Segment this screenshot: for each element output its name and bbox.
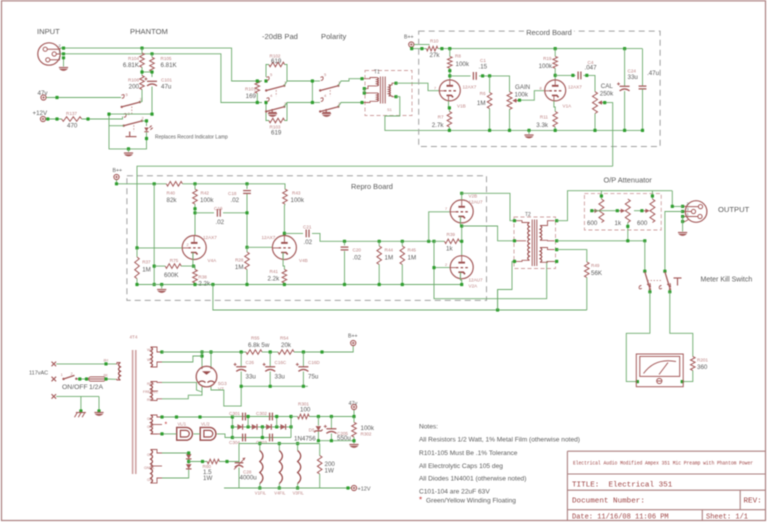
wire wiper bus 2 [634, 210, 644, 212]
junction R6 top [488, 74, 491, 77]
junction rail R7 [448, 129, 451, 132]
resistor R45 1M [400, 246, 405, 265]
wire bridge to R301 [291, 416, 298, 418]
svg-text:.047: .047 [585, 64, 598, 71]
wire R54 to B++ [294, 346, 353, 352]
svg-text:Meter Kill Switch: Meter Kill Switch [701, 277, 753, 284]
svg-text:Notes:: Notes: [419, 424, 438, 431]
wire T2 to attenuator rail [557, 191, 673, 221]
junction pin2 feed [671, 205, 674, 208]
transformer T2 box [514, 217, 556, 269]
junction R137 left [55, 117, 58, 120]
wire switch pivot left [109, 125, 124, 127]
junction chassis [79, 409, 82, 412]
junction rail R37 [135, 283, 138, 286]
switch S103B polarity [319, 98, 339, 113]
title block frame [567, 451, 765, 520]
wire V2A grid feedback from T2 secondary [434, 261, 557, 298]
svg-text:1M: 1M [142, 267, 151, 274]
junction T2 pin3 [513, 260, 516, 263]
junction T2 return [496, 308, 499, 311]
switch S1 ON/OFF [62, 375, 77, 380]
svg-text:+12V: +12V [358, 487, 371, 493]
svg-text:5G3: 5G3 [218, 381, 227, 386]
junction pin2 [62, 47, 65, 50]
svg-text:All Diodes 1N4001 (otherwise n: All Diodes 1N4001 (otherwise noted) [419, 476, 526, 483]
resistor R39 1k [445, 239, 460, 244]
junction 12V [346, 486, 349, 489]
svg-text:.02: .02 [231, 197, 240, 204]
svg-text:100k: 100k [539, 63, 553, 70]
AC pin 1 [52, 362, 57, 367]
svg-text:1k: 1k [446, 246, 453, 253]
terminal B++ supply [351, 340, 356, 345]
svg-text:7: 7 [445, 207, 447, 211]
capacitor C20 .02 [341, 247, 349, 250]
switch S201A meter kill [639, 272, 662, 291]
junction LED bottom [145, 137, 148, 140]
wire R200 bottom [319, 474, 321, 488]
junction R37 top [135, 246, 138, 249]
svg-text:47u: 47u [161, 84, 172, 91]
svg-text:619: 619 [271, 58, 282, 65]
svg-text:1W: 1W [203, 475, 212, 482]
diode D304 [280, 424, 285, 430]
svg-text:All Resistors 1/2 Watt, 1% Met: All Resistors 1/2 Watt, 1% Metal Film (o… [419, 437, 580, 444]
junction R101 top [256, 79, 259, 82]
svg-text:T1: T1 [374, 70, 380, 76]
polarized capacitor C24 33u [617, 82, 630, 91]
svg-text:V2B: V2B [469, 194, 478, 199]
junction V2A grid [432, 266, 435, 269]
wire CAL signal to V4A grid [137, 166, 613, 248]
wire zener ground rail [318, 440, 354, 442]
junction R104 top [140, 47, 143, 50]
ground at input XLR [59, 68, 68, 71]
junction R45 top [401, 240, 404, 243]
resistor R302 100k [352, 422, 357, 437]
junction V1FIL bottom [258, 486, 261, 489]
wire R44 top stub [378, 241, 380, 246]
svg-text:R101-105 Must Be .1% Tolerance: R101-105 Must Be .1% Tolerance [419, 450, 518, 457]
junction R42 bottom [193, 207, 196, 210]
wire ground to T2 primary return [213, 261, 514, 310]
svg-text:12AX7: 12AX7 [262, 235, 276, 240]
svg-text:V1A: V1A [563, 104, 573, 109]
svg-text:R201: R201 [697, 358, 708, 363]
wire R201 to meter right [682, 371, 693, 382]
svg-text:R105: R105 [161, 56, 172, 61]
svg-text:2: 2 [187, 243, 189, 247]
junction T2 pin5 [555, 239, 558, 242]
svg-text:V2A: V2A [469, 284, 479, 289]
junction V2B cathode [460, 224, 463, 227]
junction rail R45 [401, 283, 404, 286]
wire long ground return [213, 309, 587, 311]
svg-text:R75: R75 [170, 258, 179, 263]
svg-text:R7: R7 [438, 115, 444, 120]
wire W1 bottom to plate [162, 356, 202, 362]
capacitor C303 [270, 434, 273, 442]
svg-text:470: 470 [67, 123, 78, 130]
wire AC ground [56, 395, 99, 397]
junction V4FIL bottom [278, 486, 281, 489]
junction bridge left mid [231, 425, 234, 428]
svg-text:+12V: +12V [33, 110, 48, 117]
svg-text:V4A: V4A [208, 258, 218, 263]
junction rail V2A cathode [460, 283, 463, 286]
wire C28 top lead [238, 462, 240, 463]
wire repro ground rail [137, 284, 462, 286]
triode V2A 12AU7 [450, 256, 473, 279]
wire R101 bottom [256, 93, 258, 102]
pilot lamp VL/2 [200, 427, 216, 440]
wire W3 bottom to lamps [162, 433, 177, 435]
wire V1FIL bottom [259, 484, 261, 489]
junction T2 pin6 [555, 248, 558, 251]
junction C16C top [269, 350, 272, 353]
wire C1 to GAIN pot [479, 76, 510, 92]
svg-text:GN*: GN* [147, 425, 154, 429]
svg-text:ON/OFF: ON/OFF [62, 384, 88, 391]
resistor 200 1W [317, 456, 322, 475]
svg-text:12AU7: 12AU7 [469, 278, 483, 283]
wire pot R51 bottom to meter kill [627, 223, 629, 241]
wire +12V to R137 [46, 118, 62, 120]
wire C26 top lead [240, 352, 242, 367]
svg-text:R54: R54 [280, 336, 289, 341]
ground earth [94, 413, 103, 416]
junction C16C bottom [269, 385, 272, 388]
junction C101 bottom [150, 113, 153, 116]
junction rail R11 [554, 129, 557, 132]
switch toggle bar polarity [323, 109, 331, 113]
resistor R301 100 [298, 414, 310, 419]
svg-text:C101: C101 [161, 78, 172, 83]
polarized capacitor C26 33u [234, 363, 247, 372]
resistor R8 100k [448, 56, 453, 68]
capacitor C1 .15 [473, 72, 476, 80]
svg-text:GN: GN [147, 478, 153, 482]
record board dashed box [419, 31, 660, 146]
wire repro B+ rail [182, 184, 285, 189]
wire pad out cold [284, 103, 312, 107]
junction lamp2 top [198, 415, 201, 418]
junction T1 pin2 [363, 87, 366, 90]
wire bridge cap row top [232, 416, 291, 418]
wire C205 bottom lead [330, 434, 332, 441]
wire R7 bottom [448, 127, 450, 130]
junction switch1 top [643, 270, 646, 273]
svg-text:100k: 100k [291, 197, 305, 204]
svg-text:D5: D5 [309, 428, 315, 433]
svg-text:3: 3 [687, 207, 689, 211]
meter M1 [636, 354, 683, 387]
junction bridge out [289, 425, 292, 428]
junction rail [320, 350, 323, 353]
wire V7 cathode out [211, 386, 241, 406]
wire V2B plate to T2 [462, 193, 514, 220]
junction rail CAL [593, 129, 596, 132]
wire D5 bottom lead [317, 432, 319, 441]
svg-text:C16C: C16C [275, 360, 287, 365]
junction cap row 1 [247, 415, 250, 418]
junction diode mid [187, 460, 190, 463]
wire pot R52 top [651, 191, 653, 199]
junction B++ repro base [115, 182, 118, 185]
AC pin 3 [52, 394, 57, 399]
O/P attenuator dashed box [584, 194, 661, 230]
junction plate2 [209, 350, 212, 353]
wire R11 bottom [554, 127, 556, 130]
transformer T1 primary winding 1 [362, 78, 379, 89]
wire V2A cathode to ground rail [460, 272, 461, 284]
junction meter kill feed [643, 239, 646, 242]
pilot lamp VL/1 [177, 427, 193, 440]
junction R8 top [448, 47, 451, 50]
wire R19 top stub [554, 49, 556, 57]
resistor R60 1.5 [207, 459, 219, 464]
wire plate to C4 [555, 74, 575, 76]
wire C18 top stub [246, 184, 248, 189]
svg-text:B++: B++ [113, 168, 123, 174]
junction W3 bottom [160, 432, 163, 435]
diode D302 [252, 424, 257, 430]
switch toggle bar [126, 132, 137, 137]
svg-text:75u: 75u [308, 374, 319, 381]
svg-text:12AX7: 12AX7 [568, 84, 582, 89]
wire bias drop to ground rail [153, 184, 155, 285]
transformer T1 primary winding 2 [362, 93, 379, 103]
svg-text:R19: R19 [543, 56, 552, 61]
wire cap riser 2 [276, 417, 278, 427]
wire lamps to bridge bottom [217, 434, 233, 438]
junction V2B plate [460, 192, 463, 195]
svg-text:250k: 250k [600, 91, 614, 98]
capacitor C302 [270, 413, 273, 421]
transformer T4 core [133, 350, 136, 474]
junction bridge TL [231, 415, 234, 418]
svg-text:2: 2 [687, 202, 689, 206]
junction R44 top [378, 240, 381, 243]
wire attenuator to out pin2 [672, 191, 682, 207]
transformer T2 secondary winding 2 [540, 248, 555, 263]
wire cap riser 1 [247, 417, 249, 427]
wire C20 top stub [344, 241, 346, 245]
svg-text:1N4756: 1N4756 [294, 436, 316, 443]
wire CAL bottom [594, 114, 596, 131]
resistor R44 1M [377, 246, 382, 265]
svg-text:R40: R40 [167, 191, 176, 196]
resistor R49 56K [585, 262, 590, 278]
junction R137 right [86, 117, 89, 120]
junction rail R38 [193, 283, 196, 286]
resistor R105 6.81K [150, 57, 155, 71]
ground record board [524, 135, 533, 138]
wire R137 to switch S101B [82, 117, 123, 120]
wire R103 right stub [285, 103, 287, 121]
wire .47u bottom lead [642, 89, 644, 130]
wire polarity out hot to T1 [338, 79, 362, 86]
junction R105 top [150, 52, 153, 55]
junction C4 out [585, 74, 588, 77]
svg-text:GN: GN [147, 453, 153, 457]
svg-text:V3FIL: V3FIL [293, 491, 305, 496]
junction D302-D303 [261, 425, 264, 428]
wire V4FIL top [278, 444, 280, 451]
wire R6 bottom stub [489, 109, 491, 131]
transformer T1 box [365, 71, 412, 116]
svg-text:47v: 47v [38, 90, 49, 97]
wire between diodes [188, 460, 190, 464]
wire switch2 to R201 [670, 292, 693, 357]
wire R102 left stub [266, 65, 269, 78]
wire wiper bus 1 [592, 210, 620, 212]
wire GAIN wiper to V1A grid [518, 91, 545, 101]
junction W1 top [160, 350, 163, 353]
junction T2 pin4 [555, 219, 558, 222]
wire R102 right stub [285, 65, 287, 82]
resistor R101 169 [255, 81, 260, 93]
svg-text:Replaces Record Indicator Lamp: Replaces Record Indicator Lamp [155, 135, 228, 141]
svg-text:CAL: CAL [601, 83, 614, 90]
wire V3FIL top [297, 444, 299, 451]
wire filament ground rail [224, 487, 351, 489]
junction R10 out [440, 47, 443, 50]
wire ground stub [528, 130, 530, 134]
junction V1FIL top [258, 442, 261, 445]
junction out pin2 [681, 205, 684, 208]
wire W4 top to diodes [162, 452, 189, 454]
wire V1A cathode to R11 [554, 101, 555, 112]
zener diode D5 1N4756 [314, 426, 322, 432]
wire V3FIL bottom [297, 484, 299, 489]
junction T2 pin1 [513, 219, 516, 222]
transformer T4 secondary winding W4 [151, 450, 163, 484]
transformer T1 core [380, 77, 385, 104]
wire C16D top lead [302, 352, 304, 367]
junction B++ base [410, 47, 413, 50]
wire T1 sec return to record ground rail [385, 97, 450, 131]
junction meter left pin [636, 380, 639, 383]
wire R42 top stub [194, 184, 196, 189]
wire GAIN bottom [509, 109, 511, 130]
junction rail R41 [283, 283, 286, 286]
svg-text:-20dB Pad: -20dB Pad [262, 32, 298, 41]
junction R8 bottom [448, 69, 451, 72]
junction C4 in [571, 74, 574, 77]
junction drop bottom [153, 283, 156, 286]
junction T2 pin7 [555, 260, 558, 263]
wire switch to LED [142, 121, 147, 126]
resistor R11 3.3k [553, 112, 558, 128]
wire C26 bottom lead [240, 372, 242, 387]
svg-text:*: * [419, 496, 422, 505]
svg-text:C1: C1 [480, 58, 486, 63]
svg-text:C16D: C16D [308, 360, 320, 365]
svg-text:12AX7: 12AX7 [203, 235, 217, 240]
svg-text:1M: 1M [385, 255, 394, 262]
terminal 47v supply [351, 404, 356, 409]
wire V4FIL bottom [278, 484, 280, 489]
resistor R37 1M [135, 257, 140, 279]
svg-text:V1B: V1B [457, 104, 466, 109]
junction W3 top [160, 415, 163, 418]
resistor R75 600K [165, 264, 181, 269]
svg-text:82k: 82k [167, 197, 178, 204]
junction GAIN wiper [518, 99, 521, 102]
capacitor C28 4000u [234, 458, 246, 470]
svg-text:C101-104 are 22uF 63V: C101-104 are 22uF 63V [419, 489, 490, 496]
wire B++ to R10 [414, 44, 430, 46]
svg-text:33u: 33u [275, 374, 286, 381]
wire C24 top lead [624, 49, 626, 87]
junction ground tap [127, 147, 130, 150]
fuse F1 1/2A [89, 377, 106, 381]
switch S103A polarity [319, 77, 339, 97]
svg-text:R6B: R6B [147, 398, 155, 402]
wire to R105 [151, 54, 153, 58]
junction C24 top [623, 47, 626, 50]
wire V1FIL top [259, 444, 261, 451]
input XLR connector X1 [38, 43, 60, 65]
svg-text:.02: .02 [304, 239, 313, 246]
junction plate1 tap [200, 354, 203, 357]
svg-text:3.3k: 3.3k [536, 122, 549, 129]
wire B++ to R40 [117, 180, 167, 184]
svg-text:2.7k: 2.7k [432, 122, 445, 129]
wire out pin3 to meter kill [665, 212, 683, 272]
junction pad sw2 in [264, 101, 267, 104]
wire R75 left [154, 265, 165, 267]
svg-text:360: 360 [697, 364, 708, 371]
svg-text:56K: 56K [591, 270, 603, 277]
label Record Board [524, 27, 574, 36]
svg-text:20k: 20k [281, 342, 292, 349]
junction R39 right [460, 240, 463, 243]
svg-text:W1: W1 [147, 348, 152, 352]
junction pin3 [62, 52, 65, 55]
junction T1 sec bottom [394, 95, 397, 98]
svg-text:R6: R6 [480, 91, 486, 96]
svg-text:T2: T2 [525, 212, 531, 218]
transformer T1 secondary winding [389, 83, 396, 97]
potentiometer R51 1k [619, 199, 630, 223]
junction R75 left [153, 265, 156, 268]
ground polarity switch frame [322, 114, 331, 117]
svg-text:600: 600 [637, 220, 648, 227]
junction box corner [107, 113, 110, 116]
svg-text:GAIN: GAIN [515, 84, 530, 91]
switch S201B meter kill [659, 272, 671, 291]
junction R51 bottom [626, 225, 629, 228]
wire rail ground stub [161, 285, 163, 289]
svg-text:1/2A: 1/2A [89, 384, 103, 391]
AC pin 2 [52, 377, 57, 382]
svg-text:4T4: 4T4 [130, 335, 138, 340]
wire C19 to node [223, 212, 247, 214]
triode V1A 12AX7 [545, 80, 566, 101]
junction meter right pin [681, 380, 684, 383]
svg-text:Record Board: Record Board [526, 28, 572, 37]
wire C24 bottom lead [624, 91, 626, 130]
ground 47v supply [349, 445, 358, 448]
wire R45 top stub [401, 241, 403, 246]
wire record ground rail [449, 129, 642, 131]
transformer T2 secondary winding 1 [540, 221, 555, 241]
junction V1B cathode [448, 106, 451, 109]
junction C18 top [245, 182, 248, 185]
